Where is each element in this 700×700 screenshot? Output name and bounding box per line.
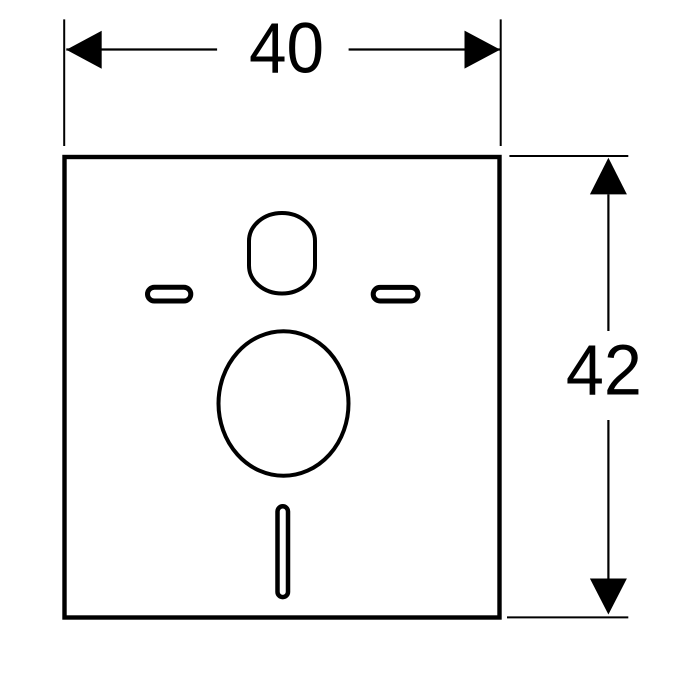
svg-text:42: 42 [566, 332, 642, 411]
svg-text:40: 40 [249, 10, 324, 89]
